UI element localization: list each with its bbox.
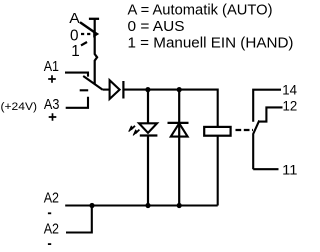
polarity + of A1: [48, 75, 56, 83]
junction node at LED branch (top): [145, 87, 150, 92]
changeover contact moving blade (common 11): [253, 120, 259, 169]
LED indicator H1 emission arrow 1: [129, 126, 135, 132]
svg-text:0 = AUS: 0 = AUS: [128, 19, 185, 35]
svg-text:A3: A3: [44, 96, 60, 113]
relay coil K1 rectangle: [204, 127, 230, 136]
LED indicator H1 emission arrow 2: [133, 130, 139, 136]
svg-text:A1: A1: [44, 58, 59, 75]
polarity + of A3: [49, 113, 57, 121]
svg-text:(+24V): (+24V): [1, 101, 38, 113]
selector switch S1 position-0 dashed pointer: [81, 33, 91, 35]
junction node A2 tie point: [89, 203, 94, 208]
LED indicator H1 wire (top): [147, 90, 149, 124]
wire from terminal A1 to switch fixed contact: [65, 73, 88, 77]
svg-text:A2: A2: [44, 190, 59, 207]
switch S1 off-position dead contact bar: [80, 89, 89, 91]
selector switch S1 position-A pointer line: [80, 22, 95, 32]
freewheeling diode V1 cathode bar: [168, 122, 189, 124]
contact fixed terminal 14 wire: [253, 90, 281, 122]
wire from blade pivot to diode D1: [103, 89, 110, 91]
junction node LED branch (bottom): [145, 203, 150, 208]
contact common terminal 11 wire: [253, 168, 278, 170]
svg-text:11: 11: [282, 162, 297, 178]
contact fixed terminal 12 wire (step): [259, 107, 282, 121]
diode D1 triangle (anode left): [110, 80, 120, 99]
dashed mechanical link from coil K1 to contact blade: [236, 129, 254, 131]
selector switch S1 position-1 pointer line: [81, 42, 87, 45]
bottom bus wire from A2 to coil branch: [65, 204, 218, 206]
selector switch S1 lever shaft with detent chevron: [95, 19, 97, 85]
polarity - of A2 (first): [48, 212, 51, 214]
wire from terminal A3 to switch fixed contact: [66, 97, 88, 108]
selector switch S1 pointer arrowhead: [93, 30, 99, 37]
svg-text:A = Automatik (AUTO): A = Automatik (AUTO): [128, 3, 273, 19]
LED indicator H1 cathode bar: [140, 134, 158, 136]
selector switch S1 lever T-bar: [89, 18, 99, 20]
svg-text:A: A: [69, 10, 80, 27]
svg-text:12: 12: [283, 99, 298, 115]
polarity - of A2 (second): [48, 243, 51, 245]
LED indicator H1 wire (bottom): [147, 136, 149, 206]
LED indicator H1 triangle: [139, 123, 157, 133]
svg-text:1 = Manuell EIN (HAND): 1 = Manuell EIN (HAND): [128, 36, 294, 52]
junction node at diode V1 branch (top): [177, 87, 182, 92]
wire from coil K1 to bottom bus: [217, 136, 219, 206]
switch S1 moving blade: [83, 76, 102, 90]
wire top bus from D1 to coil branch: [123, 90, 217, 127]
wire from second A2 up to bottom bus: [66, 206, 92, 233]
svg-text:14: 14: [282, 82, 297, 98]
freewheeling diode V1 vertical wire: [178, 90, 180, 206]
freewheeling diode V1 triangle (pointing up): [171, 123, 188, 136]
svg-text:1: 1: [71, 43, 80, 60]
svg-text:A2: A2: [44, 221, 59, 238]
junction node diode V1 branch (bottom): [177, 203, 182, 208]
diode D1 cathode bar: [122, 81, 124, 99]
